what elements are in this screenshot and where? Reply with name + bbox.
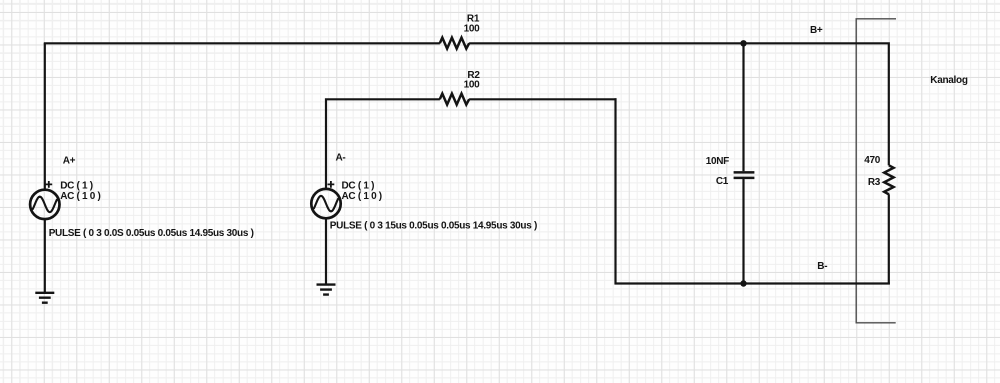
svg-text:10NF: 10NF xyxy=(706,156,729,167)
svg-text:100: 100 xyxy=(464,24,481,35)
V1 plus polarity mark xyxy=(45,181,52,188)
svg-text:B+: B+ xyxy=(810,25,823,36)
Kanalog bracket xyxy=(856,19,896,323)
resistor R2 xyxy=(440,94,469,105)
svg-text:AC ( 1 0 ): AC ( 1 0 ) xyxy=(342,191,382,202)
svg-text:C1: C1 xyxy=(716,176,729,187)
ground (V1) xyxy=(35,293,54,303)
wire R3 bottom to bottom rail xyxy=(888,194,890,284)
V2 plus polarity mark xyxy=(328,181,335,188)
wire top rail left section to R1 xyxy=(44,42,440,44)
svg-text:470: 470 xyxy=(864,155,881,166)
resistor R1 xyxy=(440,38,469,49)
wire C1 bottom lead to node B- xyxy=(742,179,744,284)
resistor R3 xyxy=(884,165,893,194)
wire bottom rail xyxy=(615,282,890,284)
svg-text:R3: R3 xyxy=(868,177,881,188)
svg-text:AC ( 1 0 ): AC ( 1 0 ) xyxy=(60,191,100,202)
ground (V2) xyxy=(317,285,336,295)
svg-text:A+: A+ xyxy=(63,155,76,166)
wire V1 minus terminal to ground xyxy=(44,219,46,293)
wire V1 plus terminal up to top rail xyxy=(44,43,46,190)
wire V2 plus terminal up and right to R2 xyxy=(326,99,440,189)
svg-text:PULSE ( 0 3 15us 0.05us 0.05us: PULSE ( 0 3 15us 0.05us 0.05us 14.95us 3… xyxy=(330,221,537,232)
svg-text:Kanalog: Kanalog xyxy=(930,75,968,86)
wire top rail R1 to node B+ xyxy=(469,42,743,44)
voltage source V1 xyxy=(30,190,59,219)
node B+ junction xyxy=(740,40,746,46)
wire R2 to right corner xyxy=(469,98,616,100)
wire R2 output down to bottom rail xyxy=(614,98,616,284)
svg-text:PULSE ( 0 3 0.0S 0.05us 0.05us: PULSE ( 0 3 0.0S 0.05us 0.05us 14.95us 3… xyxy=(49,228,254,239)
capacitor C1 xyxy=(734,172,755,178)
wire V2 minus terminal to ground xyxy=(325,218,327,284)
svg-text:B-: B- xyxy=(817,261,827,272)
wire C1 top lead from node B+ xyxy=(742,43,744,171)
voltage source V2 xyxy=(311,189,340,218)
svg-text:100: 100 xyxy=(464,80,481,91)
wire node B+ to R3 top corner xyxy=(744,42,890,165)
svg-text:A-: A- xyxy=(336,153,346,164)
node B- junction xyxy=(740,280,746,286)
